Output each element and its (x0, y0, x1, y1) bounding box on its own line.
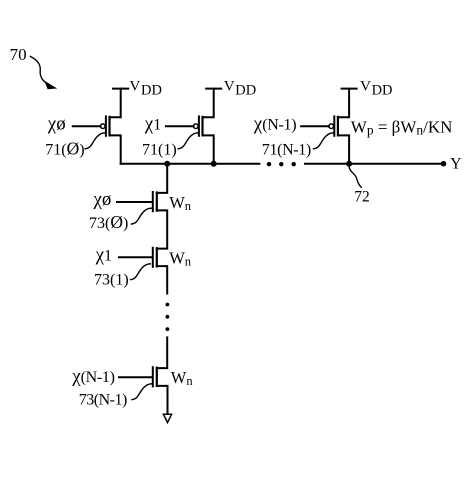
pmos 71(0) gate bubble (101, 124, 106, 129)
leader 71(0) (85, 133, 105, 149)
pmos 71(0) channel bar (108, 117, 110, 135)
wire VDD3 to Q71(N-1) source (338, 89, 349, 118)
VDD bar 1 (113, 88, 128, 90)
wire gate lead chi(N-1) to 73(N-1) (119, 376, 152, 378)
VDD bar 2 (206, 88, 221, 90)
pmos 71(N-1) channel bar (337, 117, 339, 135)
wire VDD1 to Q71(0) source (110, 89, 121, 118)
wire Q71(1) drain to node (203, 135, 214, 163)
wire gate lead chi1 to 73(1) (119, 256, 152, 258)
nmos 73(0) gate bar (152, 192, 154, 211)
svg-text:χø: χø (47, 113, 66, 134)
vertical ellipsis dot 3 (166, 327, 170, 331)
nmos 73(N-1) gate bar (152, 367, 154, 386)
wire VDD2 to Q71(1) source (203, 89, 214, 118)
pmos 71(N-1) gate bubble (329, 124, 334, 129)
svg-text:χ(N-1): χ(N-1) (253, 113, 296, 134)
wire ellipsis to 73(N-1) drain (157, 337, 167, 368)
leader 73(N-1) (132, 384, 152, 400)
ground arrow (open triangle) (163, 414, 171, 422)
svg-text:72: 72 (354, 189, 370, 206)
ellipsis dot 1 on bus (267, 162, 271, 166)
pmos 71(N-1) gate bar (333, 116, 335, 135)
node bus segment B to Y (305, 163, 444, 165)
vertical ellipsis dot 2 (166, 315, 170, 319)
ellipsis dot 3 on bus (292, 162, 296, 166)
pmos 71(1) gate bar (198, 116, 200, 135)
wire 73(N-1) source to ground arrow (157, 386, 168, 414)
svg-text:χ1: χ1 (144, 113, 161, 134)
svg-text:70: 70 (10, 45, 27, 64)
nmos 73(1) channel bar (156, 248, 158, 266)
wire 73(0) source to 73(1) drain (157, 210, 167, 248)
leader 73(0) (132, 208, 152, 224)
svg-text:71(Ø): 71(Ø) (45, 138, 84, 158)
nmos 73(0) channel bar (156, 193, 158, 211)
output terminal dot Y (441, 161, 447, 167)
leader 71(1) (178, 133, 198, 149)
svg-text:71(N-1): 71(N-1) (262, 141, 311, 158)
wire gate lead chi0 to 73(0) (117, 201, 152, 203)
junction node at Q71(1) drain (211, 161, 217, 167)
wire Q71(0) drain to node (110, 135, 121, 163)
pmos 71(1) channel bar (201, 117, 203, 135)
wire Q71(N-1) drain to node (338, 135, 349, 163)
svg-text:Y: Y (450, 155, 461, 172)
svg-text:71(1): 71(1) (142, 142, 177, 159)
svg-text:χø: χø (93, 189, 112, 210)
pmos 71(0) gate bar (105, 116, 107, 135)
nmos 73(N-1) channel bar (156, 368, 158, 386)
nmos 73(1) gate bar (152, 248, 154, 267)
leader 72 (349, 167, 361, 188)
junction node at NMOS chain (164, 161, 170, 167)
svg-text:73(1): 73(1) (94, 271, 129, 288)
vertical ellipsis dot 1 (166, 303, 170, 307)
ellipsis dot 2 on bus (279, 162, 283, 166)
svg-text:73(N-1): 73(N-1) (79, 391, 127, 408)
leader 71(N-1) (314, 133, 334, 149)
leader 73(1) (131, 264, 151, 280)
wire node to nmos 73(0) drain (157, 164, 167, 193)
svg-text:χ(N-1): χ(N-1) (71, 366, 114, 387)
svg-text:χ1: χ1 (95, 244, 112, 265)
wire 73(1) source down to ellipsis (157, 266, 167, 293)
wire gate lead chi1 to 71(1) (166, 125, 194, 127)
svg-text:Wp = βWn/KN: Wp = βWn/KN (351, 118, 453, 138)
junction node 72 at Q71(N-1) drain (346, 161, 352, 167)
wire gate lead chi0 to 71(0) (73, 125, 101, 127)
wire gate lead chi(N-1) to 71(N-1) (301, 125, 329, 127)
svg-text:73(Ø): 73(Ø) (89, 212, 128, 232)
VDD bar 3 (342, 88, 357, 90)
leader arrow from 70 (31, 57, 58, 90)
node bus segment A (121, 163, 260, 165)
pmos 71(1) gate bubble (194, 124, 199, 129)
